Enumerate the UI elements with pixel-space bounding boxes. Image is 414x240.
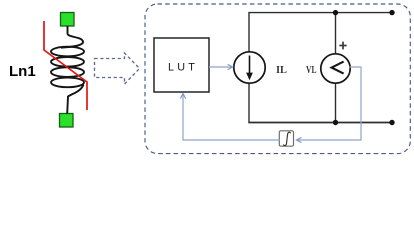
node junction dots: [333, 10, 338, 15]
LUT block: [154, 38, 209, 92]
voltage source VL: [321, 54, 350, 83]
terminal top (green): [61, 13, 75, 27]
signal wire LUT to IL: [209, 66, 232, 68]
signal wire VL to integrator: [298, 67, 362, 140]
integrator block: [279, 131, 293, 146]
svg-text:IL: IL: [276, 65, 287, 76]
dashed subsystem boundary box: [145, 4, 410, 154]
wire VL branch bottom: [335, 83, 337, 123]
signal wire integrator to LUT: [183, 95, 280, 140]
current source IL: [234, 52, 265, 83]
wire bottom rail: [248, 84, 250, 123]
wire VL branch top: [335, 13, 337, 54]
svg-text:VL: VL: [306, 65, 317, 76]
svg-text:LUT: LUT: [168, 62, 198, 74]
inductor Ln1 coil: [51, 26, 84, 114]
wire top rail: [249, 13, 392, 52]
terminal bottom (green): [60, 114, 74, 128]
svg-text:Ln1: Ln1: [9, 63, 36, 80]
red variation stroke over coil: [44, 21, 87, 110]
label +: [339, 42, 346, 50]
dashed block arrow: [95, 53, 140, 84]
